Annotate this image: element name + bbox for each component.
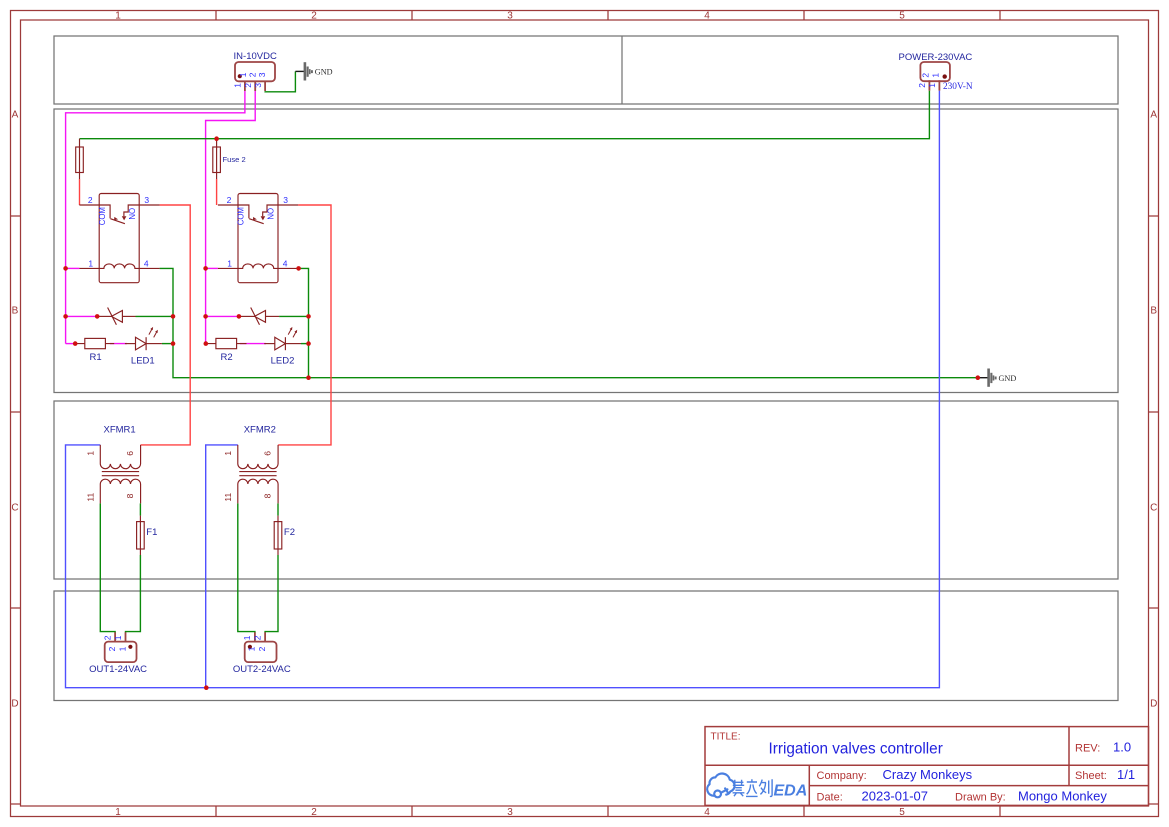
junction LED1 right rail	[171, 341, 176, 346]
svg-text:2: 2	[257, 646, 267, 651]
svg-text:1: 1	[233, 83, 243, 88]
svg-text:GND: GND	[999, 374, 1017, 383]
svg-text:XFMR1: XFMR1	[103, 425, 135, 436]
svg-text:1: 1	[927, 83, 937, 88]
wire magenta R1 branch	[66, 343, 76, 345]
svg-text:1: 1	[242, 635, 252, 640]
svg-text:1: 1	[247, 646, 257, 651]
junction fuse2 top net	[214, 136, 219, 141]
junction zener D1 right rail	[171, 314, 176, 319]
wire green 230V-L top net	[80, 91, 930, 139]
svg-text:1: 1	[227, 258, 232, 268]
svg-text:R1: R1	[90, 352, 102, 363]
svg-text:3: 3	[283, 195, 288, 205]
junction zener D2 left rail	[203, 314, 208, 319]
ground flag right GND	[987, 369, 996, 387]
wire magenta zener D2 branch	[206, 315, 239, 317]
fuse F? circuit1	[76, 139, 84, 179]
junction neutral rail xfmr2	[204, 685, 209, 690]
zener diode D2	[239, 308, 279, 325]
svg-text:2: 2	[917, 83, 927, 88]
svg-text:C: C	[1150, 503, 1157, 514]
relay K1 pin numbers	[88, 195, 150, 268]
svg-text:1: 1	[115, 807, 121, 818]
wire red relay2 pin3 to XFMR2 pin6	[278, 205, 331, 445]
svg-text:1: 1	[238, 72, 248, 77]
svg-text:NO: NO	[267, 208, 276, 220]
wire red fuse1 to relay1 pin2	[79, 179, 81, 205]
junction R2 left	[204, 341, 209, 346]
junction zener D1 left rail	[63, 314, 68, 319]
wire green XFMR2 pin8 to F2	[277, 503, 279, 515]
svg-text:230V-N: 230V-N	[943, 82, 973, 92]
svg-text:Company:: Company:	[817, 770, 867, 782]
junction relay2 pin1	[203, 266, 208, 271]
connector OUT2-24VAC	[245, 632, 277, 662]
svg-text:1: 1	[113, 635, 123, 640]
svg-text:1/1: 1/1	[1117, 767, 1135, 782]
svg-text:Irrigation valves controller: Irrigation valves controller	[769, 741, 943, 758]
fuse F1	[137, 516, 145, 555]
junction R1 left	[73, 341, 78, 346]
svg-text:XFMR2: XFMR2	[244, 425, 276, 436]
svg-text:EDA: EDA	[774, 783, 808, 800]
svg-text:2: 2	[243, 83, 253, 88]
resistor R1	[75, 338, 114, 348]
svg-text:1: 1	[88, 258, 93, 268]
wire magenta R1 to LED1	[110, 343, 127, 345]
wire blue POWER pin1 neutral loop	[66, 91, 940, 688]
svg-text:F2: F2	[284, 527, 295, 538]
svg-text:4: 4	[704, 807, 710, 818]
svg-text:IN-10VDC: IN-10VDC	[234, 51, 277, 62]
svg-text:1: 1	[931, 73, 941, 78]
svg-text:8: 8	[125, 493, 135, 498]
LED2	[264, 327, 301, 350]
wire magenta net IN pin2 to circuit2	[206, 91, 256, 344]
logo text jia li chuang (CJK stroke shapes)	[733, 779, 773, 796]
wire black to top GND flag	[295, 70, 304, 72]
svg-text:LED1: LED1	[131, 355, 155, 366]
XFMR1 pin numbers	[85, 451, 135, 502]
relay K2 pin numbers	[227, 195, 289, 268]
svg-text:3: 3	[507, 10, 513, 21]
wire green XFMR1 pin8 to F1	[139, 503, 141, 515]
svg-text:4: 4	[144, 258, 149, 268]
connector OUT1-24VAC	[105, 632, 137, 662]
wire green F2 to OUT2 pin2	[265, 555, 278, 633]
svg-text:3: 3	[257, 72, 267, 77]
ground flag top GND	[304, 62, 313, 80]
svg-text:Drawn By:: Drawn By:	[955, 792, 1006, 804]
svg-text:Fuse 2: Fuse 2	[223, 155, 246, 164]
wire green relay2 pin4 down	[299, 268, 309, 377]
junction gnd rail end	[976, 375, 981, 380]
svg-text:1.0: 1.0	[1113, 740, 1131, 755]
OUT1 pin numbers	[102, 635, 127, 651]
fuse F2	[274, 516, 282, 555]
svg-text:2: 2	[88, 195, 93, 205]
wire red relay1 pin3 to XFMR1 pin6	[141, 205, 191, 445]
pin numbers POWER-230VAC	[917, 73, 941, 88]
wire black to right GND flag	[978, 377, 988, 379]
svg-text:Mongo Monkey: Mongo Monkey	[1018, 789, 1107, 804]
wire green IN pin3 to GND flag	[265, 71, 295, 91]
svg-text:OUT1-24VAC: OUT1-24VAC	[89, 664, 147, 675]
svg-text:11: 11	[86, 493, 96, 502]
wire green zener D2 right	[279, 315, 308, 317]
wire blue XFMR2 pin1 branch	[206, 445, 238, 688]
svg-text:Sheet:: Sheet:	[1075, 770, 1107, 782]
svg-text:F1: F1	[146, 527, 157, 538]
svg-text:GND: GND	[315, 68, 333, 77]
svg-text:B: B	[12, 306, 19, 317]
junction zener D1 anode	[95, 314, 100, 319]
svg-text:5: 5	[899, 807, 905, 818]
svg-text:2023-01-07: 2023-01-07	[862, 789, 929, 804]
wire green relay1 pin4 down to gnd rail	[160, 268, 978, 377]
svg-text:Crazy Monkeys: Crazy Monkeys	[883, 767, 973, 782]
svg-text:A: A	[1150, 110, 1157, 121]
wire magenta relay1 pin1 branch	[66, 267, 80, 269]
wire magenta zener D1 branch	[66, 315, 98, 317]
svg-text:COM: COM	[98, 207, 107, 225]
svg-text:Date:: Date:	[817, 792, 843, 804]
svg-text:D: D	[11, 699, 18, 710]
OUT2 pin numbers	[242, 635, 267, 651]
svg-text:R2: R2	[221, 352, 233, 363]
svg-text:B: B	[1150, 306, 1157, 317]
wire green F1 to OUT1 pin1	[126, 555, 141, 633]
wire green XFMR2 pin11 to OUT2 pin1	[238, 503, 255, 632]
LED1	[125, 327, 162, 350]
logo JLC EDA cloud icon	[707, 774, 734, 798]
connector POWER-230VAC	[920, 62, 950, 91]
wire green zener D1 right	[136, 315, 174, 317]
svg-text:4: 4	[704, 10, 710, 21]
svg-text:2: 2	[311, 807, 317, 818]
svg-text:D: D	[1150, 699, 1157, 710]
wire green LED2 right	[301, 343, 309, 345]
svg-text:2: 2	[311, 10, 317, 21]
section boxes	[54, 36, 1118, 701]
junction zener D2 anode	[237, 314, 242, 319]
relay K2	[218, 194, 299, 283]
svg-text:6: 6	[125, 451, 135, 456]
svg-text:POWER-230VAC: POWER-230VAC	[899, 52, 973, 63]
svg-text:1: 1	[117, 646, 127, 651]
svg-text:8: 8	[262, 493, 272, 498]
connector first-pin dots	[128, 74, 947, 649]
svg-text:NO: NO	[128, 208, 137, 220]
svg-text:C: C	[11, 503, 18, 514]
junction gnd rail circuit2	[306, 375, 311, 380]
connector IN-10VDC	[235, 62, 275, 91]
svg-text:3: 3	[253, 83, 263, 88]
svg-text:TITLE:: TITLE:	[711, 732, 741, 743]
svg-text:2: 2	[102, 635, 112, 640]
wire green XFMR1 pin11 to OUT1 pin2	[100, 503, 115, 632]
relay K1	[79, 194, 159, 283]
wire green LED1 right	[162, 343, 173, 345]
wire magenta R2 to LED2	[240, 343, 266, 345]
junction zener D2 right rail	[306, 314, 311, 319]
svg-text:2: 2	[227, 195, 232, 205]
junction LED2 right rail	[306, 341, 311, 346]
svg-text:2: 2	[247, 72, 257, 77]
fuse Fuse 2	[213, 139, 221, 179]
svg-text:3: 3	[507, 807, 513, 818]
junction relay2 pin4	[296, 266, 301, 271]
svg-text:1: 1	[85, 451, 95, 456]
svg-text:OUT2-24VAC: OUT2-24VAC	[233, 664, 291, 675]
wire magenta relay2 pin1 branch	[206, 267, 218, 269]
svg-text:REV:: REV:	[1075, 743, 1100, 755]
wire magenta net IN pin1 to circuit1	[66, 91, 245, 344]
svg-text:LED2: LED2	[271, 355, 295, 366]
svg-text:1: 1	[115, 10, 121, 21]
transformer XFMR1	[100, 445, 140, 504]
svg-text:3: 3	[144, 195, 149, 205]
svg-text:1: 1	[223, 451, 233, 456]
svg-text:5: 5	[899, 10, 905, 21]
svg-text:2: 2	[921, 73, 931, 78]
svg-text:COM: COM	[237, 207, 246, 225]
svg-text:11: 11	[223, 493, 233, 502]
pin numbers IN-10VDC inside	[233, 72, 267, 88]
XFMR2 pin numbers	[223, 451, 273, 502]
svg-text:6: 6	[263, 451, 273, 456]
svg-text:A: A	[12, 110, 19, 121]
svg-text:2: 2	[107, 646, 117, 651]
transformer XFMR2	[238, 445, 278, 504]
svg-text:4: 4	[283, 258, 288, 268]
zener diode D1	[97, 308, 135, 325]
svg-text:2: 2	[253, 635, 263, 640]
wire red fuse2 to relay2 pin2	[216, 179, 218, 205]
junction relay1 pin1	[63, 266, 68, 271]
resistor R2	[206, 338, 247, 348]
